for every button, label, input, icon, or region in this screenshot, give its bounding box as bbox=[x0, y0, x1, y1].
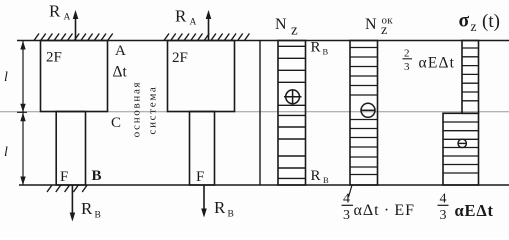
svg-text:F: F bbox=[196, 169, 204, 185]
bottom floor line bbox=[19, 184, 509, 186]
plus sign in N_z bbox=[284, 90, 302, 104]
N_z bar hatch lines bbox=[278, 46, 306, 178]
force arrow R_B (structure 1) bbox=[71, 185, 73, 219]
svg-text:2F: 2F bbox=[46, 50, 62, 66]
N_z diagram bar bbox=[278, 41, 306, 186]
svg-text:2F: 2F bbox=[172, 50, 188, 66]
top support hatching over bar 2 bbox=[164, 34, 249, 41]
leader line under N_z^ok bbox=[349, 185, 353, 197]
svg-text:z: z bbox=[471, 19, 477, 34]
svg-text:3: 3 bbox=[404, 61, 410, 73]
svg-text:A: A bbox=[190, 18, 197, 28]
sigma wide bar hatch lines bbox=[443, 122, 479, 173]
svg-text:B: B bbox=[228, 210, 234, 220]
svg-text:(t): (t) bbox=[482, 11, 500, 32]
svg-text:l: l bbox=[4, 145, 8, 160]
minus sign in N_z^ok bbox=[361, 103, 375, 117]
svg-text:B: B bbox=[92, 168, 102, 184]
svg-text:R: R bbox=[311, 40, 321, 56]
top ceiling line bbox=[17, 40, 509, 42]
svg-text:основная: основная bbox=[131, 81, 143, 138]
svg-text:F: F bbox=[60, 169, 68, 185]
svg-text:B: B bbox=[323, 175, 329, 185]
svg-text:B: B bbox=[95, 211, 101, 221]
svg-text:4: 4 bbox=[440, 192, 447, 207]
svg-text:αΔt · EF: αΔt · EF bbox=[354, 202, 416, 219]
svg-text:2: 2 bbox=[404, 48, 410, 60]
svg-text:R: R bbox=[49, 2, 61, 21]
svg-text:3: 3 bbox=[343, 208, 350, 223]
svg-text:R: R bbox=[311, 168, 321, 184]
N_z diagram axis bbox=[259, 41, 261, 186]
svg-text:σ: σ bbox=[459, 11, 470, 32]
svg-text:Δt: Δt bbox=[113, 64, 128, 81]
svg-text:R: R bbox=[175, 7, 187, 26]
svg-text:z: z bbox=[291, 23, 298, 39]
svg-text:R: R bbox=[214, 198, 226, 217]
force arrow R_A (structure 1) bbox=[75, 13, 77, 41]
svg-text:C: C bbox=[111, 115, 121, 131]
svg-text:A: A bbox=[64, 13, 71, 23]
svg-text:αEΔt: αEΔt bbox=[455, 201, 494, 220]
mid gray line (junction level) bbox=[0, 111, 509, 113]
sigma narrow bar (upper) bbox=[462, 41, 479, 114]
svg-text:l: l bbox=[4, 70, 8, 85]
svg-text:B: B bbox=[323, 47, 329, 57]
sigma narrow bar hatch lines bbox=[462, 48, 479, 101]
narrow bar F (structure 1) bbox=[56, 112, 85, 186]
narrow bar F (structure 2) bbox=[190, 112, 215, 186]
svg-text:N: N bbox=[275, 16, 287, 33]
dimension arrowheads bbox=[20, 41, 25, 50]
svg-text:N: N bbox=[365, 16, 377, 33]
wide bar 2F (structure 2) bbox=[168, 41, 235, 112]
svg-text:3: 3 bbox=[440, 208, 447, 223]
minus sign in sigma diagram bbox=[458, 139, 467, 147]
svg-text:R: R bbox=[81, 199, 93, 218]
svg-text:ок: ок bbox=[382, 15, 394, 27]
top support hatching over bar 1 bbox=[34, 34, 113, 41]
force arrow R_B (structure 2) bbox=[203, 185, 205, 215]
svg-text:4: 4 bbox=[343, 192, 350, 207]
svg-text:система: система bbox=[147, 85, 159, 134]
sigma wide bar (lower) bbox=[443, 113, 479, 185]
svg-text:A: A bbox=[115, 43, 126, 59]
bottom support hatching under bar 1 bbox=[47, 185, 87, 192]
left dimension line bbox=[17, 41, 27, 185]
svg-text:αEΔt: αEΔt bbox=[419, 55, 456, 72]
N_z^ok bar hatch lines bbox=[350, 48, 378, 175]
force arrow R_A (structure 2) bbox=[208, 13, 210, 41]
N_z^ok diagram bar bbox=[350, 41, 378, 186]
wide bar 2F (structure 1) bbox=[41, 41, 108, 112]
